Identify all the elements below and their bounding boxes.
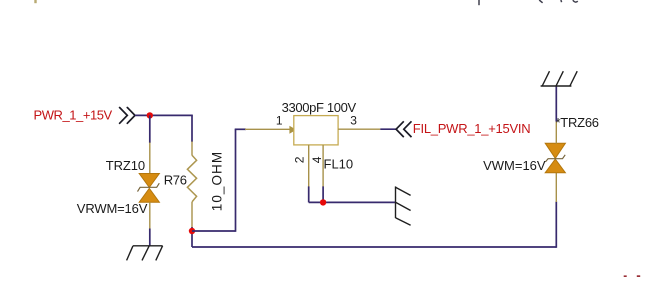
FL10 pin 1 lead: [245, 128, 294, 130]
ground symbol (top right, inverted): [541, 71, 578, 86]
FL10 pin 2 lead: [308, 145, 310, 187]
resistor R76 zigzag: [187, 155, 196, 202]
TVS diode TRZ66 top lead: [555, 121, 557, 144]
svg-text:*TRZ66: *TRZ66: [556, 115, 599, 130]
TVS diode TRZ10 body: [138, 174, 160, 203]
artifact: cut-off red text at bottom-right corner: [624, 275, 641, 277]
resistor R76 top lead: [191, 142, 193, 156]
TVS diode TRZ66 body: [545, 143, 565, 173]
wire: pin 4 down: [322, 186, 324, 202]
wire: bottom bus from junction to right: [192, 246, 556, 248]
wire: riser up to pin 1 level: [235, 129, 237, 232]
svg-text:VWM=16V: VWM=16V: [483, 158, 546, 173]
TVS diode TRZ10 top lead: [149, 143, 151, 175]
artifact: cut-off text fragments at top edge: [479, 0, 578, 5]
junction dot bottom of resistor: [189, 228, 195, 234]
wire: TVS diode bottom to ground: [149, 229, 151, 246]
wire: pins 2,4 to middle ground: [309, 201, 396, 203]
wire: pin 3 to output port: [380, 128, 396, 130]
TVS diode TRZ66 bottom lead: [555, 173, 557, 202]
label *TRZ66: [556, 115, 599, 130]
wire: to FL10 pin 1: [235, 128, 246, 130]
label 10_OHM (rotated): [209, 151, 224, 211]
wire: drop to resistor top: [191, 115, 193, 141]
svg-text:10_OHM: 10_OHM: [209, 151, 224, 211]
label 3300pF 100V: [282, 100, 357, 115]
svg-text:3: 3: [350, 114, 357, 128]
wire: junction down to TVS diode top pin: [149, 115, 151, 143]
net label PWR_1_+15V: [34, 107, 113, 122]
junction dot at PWR input: [147, 112, 153, 118]
port chevron FIL_PWR_1_+15VIN: [396, 121, 411, 137]
resistor R76 bottom lead: [191, 202, 193, 228]
label TRZ10: [106, 158, 145, 173]
pin number 3: [350, 114, 357, 128]
svg-text:FL10: FL10: [324, 156, 354, 171]
pin number 4 (rotated): [310, 156, 324, 163]
svg-text:FIL_PWR_1_+15VIN: FIL_PWR_1_+15VIN: [413, 121, 531, 136]
FL10 pin 1 arrowhead: [289, 126, 296, 134]
label VWM=16V: [483, 158, 546, 173]
ground symbol (bottom left): [127, 246, 163, 261]
label R76: [164, 172, 187, 187]
FL10 pin 3 lead: [338, 128, 380, 130]
svg-text:TRZ10: TRZ10: [106, 158, 145, 173]
wire: junction right toward pin1 riser: [192, 230, 236, 232]
wire: port to corner above resistor: [135, 114, 193, 116]
wire: bus up to TVS diode TRZ66 bottom: [555, 202, 557, 248]
wire: TRZ66 top to upper ground: [555, 86, 557, 122]
port chevron PWR_1_+15V: [120, 108, 135, 124]
label FL10: [324, 156, 354, 171]
wire: pin 2 down: [308, 186, 310, 202]
pin number 2 (rotated): [293, 156, 307, 163]
pin number 1: [276, 114, 283, 128]
FL10 pin 4 lead: [322, 145, 324, 187]
TVS diode TRZ10 bottom lead: [149, 202, 151, 229]
label VRWM=16V: [77, 201, 148, 216]
filter FL10 body: [294, 116, 338, 145]
svg-text:PWR_1_+15V: PWR_1_+15V: [34, 107, 113, 122]
net label FIL_PWR_1_+15VIN: [413, 121, 531, 136]
artifact: cut-off gold lead at top edge: [34, 0, 36, 3]
wire: resistor bottom to bottom junction: [191, 227, 193, 247]
svg-text:2: 2: [293, 156, 307, 163]
ground symbol (middle, rotated): [396, 186, 411, 225]
junction dot pin 4: [320, 199, 326, 205]
svg-text:1: 1: [276, 114, 283, 128]
svg-text:3300pF 100V: 3300pF 100V: [282, 100, 357, 115]
svg-text:R76: R76: [164, 172, 187, 187]
svg-text:4: 4: [310, 156, 324, 163]
svg-text:VRWM=16V: VRWM=16V: [77, 201, 148, 216]
